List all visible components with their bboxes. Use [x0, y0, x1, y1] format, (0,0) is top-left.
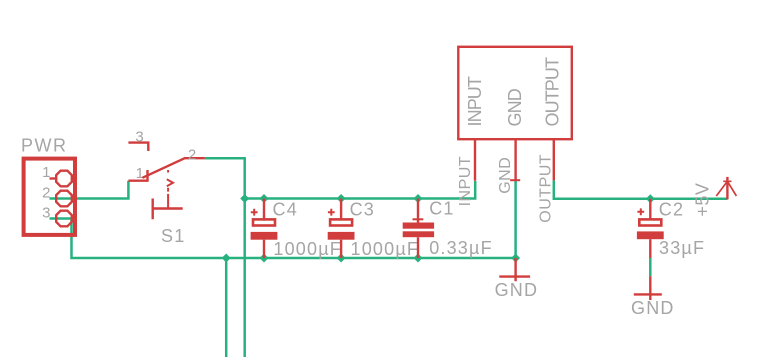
regulator U1 OUTPUT pin [553, 140, 555, 180]
ground symbol below regulator [499, 258, 530, 281]
capacitor C2 top lead [649, 199, 651, 219]
wire regulator OUTPUT pin to +5V [554, 180, 728, 198]
svg-text:GND: GND [631, 298, 675, 318]
wire regulator GND pin down to ground junction [514, 180, 517, 258]
PWR pad 1 (octagon) [56, 171, 72, 187]
junction C2 tap on output wire [646, 194, 655, 203]
junction C4 top [260, 194, 269, 203]
svg-text:1: 1 [42, 164, 51, 181]
switch S1 pin 2 [185, 157, 205, 159]
capacitor C1 lead tick [413, 218, 424, 220]
wire from PWR pin 2 up to switch S1 pin 1 [50, 181, 129, 199]
capacitor C4 plus sign [251, 209, 258, 216]
regulator U1 GND pin [514, 140, 516, 180]
switch S1 pin 1 [128, 179, 148, 181]
junction C4 bottom [260, 254, 269, 263]
capacitor C1 top lead [417, 199, 419, 223]
junction ground rail at regulator GND [511, 254, 520, 263]
capacitor C2 negative plate [637, 231, 664, 239]
wire top input rail from junction to regulator INPUT pin [245, 181, 476, 199]
regulator U1 INPUT pin [474, 140, 476, 181]
svg-text:GND: GND [505, 88, 525, 126]
svg-text:+5V: +5V [693, 183, 713, 217]
capacitor C3 bottom lead [340, 240, 342, 258]
svg-text:GND: GND [495, 280, 539, 300]
capacitor C4 bottom lead [263, 240, 265, 258]
wire C2 negative lead to GND symbol [649, 258, 652, 276]
svg-text:0.33µF: 0.33µF [429, 238, 493, 258]
wire from switch S1 pin 2 down across page [205, 158, 245, 357]
capacitor C3 negative plate [328, 232, 355, 240]
svg-text:GND: GND [497, 157, 514, 194]
svg-text:2: 2 [188, 147, 197, 164]
wire stub going down off-page from bottom rail [225, 258, 228, 357]
capacitor C2 plus sign [637, 208, 644, 215]
junction on top rail at switch wire [240, 194, 249, 203]
switch S1 actuator dashed link with arrow [167, 170, 169, 209]
svg-text:INPUT: INPUT [457, 156, 474, 207]
wire from PWR pin 3 along bottom ground rail to regulator GND junction [50, 219, 516, 259]
svg-text:C4: C4 [273, 200, 298, 220]
svg-text:OUTPUT: OUTPUT [543, 57, 563, 127]
capacitor C1 plate 2 [403, 231, 434, 237]
svg-text:2: 2 [42, 185, 51, 202]
svg-text:33µF: 33µF [659, 238, 705, 258]
switch S1 actuator tee [153, 199, 183, 220]
capacitor C4 positive plate [253, 219, 275, 225]
switch S1 lever [142, 158, 185, 178]
ground symbol below C2 [634, 293, 662, 295]
svg-text:1000µF: 1000µF [273, 239, 342, 259]
capacitor C2 bottom lead [649, 239, 651, 258]
switch S1 pin 3 (NC stub) [128, 143, 148, 151]
junction C1 bottom [414, 254, 423, 263]
switch S1 contact tick [146, 170, 148, 181]
capacitor C3 top lead [340, 199, 342, 219]
junction C3 bottom [337, 254, 346, 263]
junction bottom rail off-page stub [222, 254, 231, 263]
svg-text:S1: S1 [161, 226, 185, 246]
svg-text:OUTPUT: OUTPUT [538, 154, 555, 223]
junction C3 top [337, 194, 346, 203]
svg-text:3: 3 [42, 205, 51, 222]
capacitor C1 bottom lead [417, 237, 419, 258]
capacitor C4 top lead [263, 199, 265, 219]
regulator U1 body [458, 47, 572, 139]
capacitor C3 plus sign [328, 209, 335, 216]
PWR pin 1 stub [50, 177, 57, 179]
regulator U1 GND pin tick [510, 179, 520, 181]
svg-text:C1: C1 [429, 199, 454, 219]
connector PWR body [24, 159, 75, 235]
capacitor C2 lower red lead to ground [649, 276, 651, 300]
capacitor C4 negative plate [251, 232, 278, 240]
svg-text:1000µF: 1000µF [351, 239, 420, 259]
svg-text:1: 1 [136, 165, 145, 182]
svg-text:C3: C3 [350, 200, 375, 220]
svg-text:3: 3 [135, 129, 144, 146]
capacitor C3 positive plate [330, 219, 352, 225]
PWR pad 2 (octagon) [56, 191, 72, 207]
junction C1 top [414, 194, 423, 203]
capacitor C2 positive plate [639, 219, 661, 225]
svg-text:C2: C2 [659, 200, 684, 220]
svg-text:PWR: PWR [21, 136, 68, 156]
PWR pad 3 (octagon) [56, 211, 72, 227]
+5V supply symbol arrow [726, 177, 728, 200]
capacitor C1 plate 1 [403, 223, 434, 229]
svg-text:INPUT: INPUT [465, 76, 485, 126]
